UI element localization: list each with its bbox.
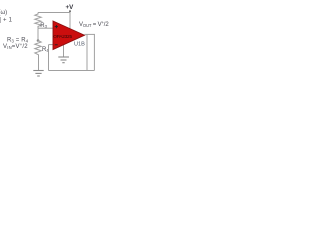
wire: non-inverting input (node to +IN) bbox=[38, 27, 53, 29]
svg-text:R3 = R4: R3 = R4 bbox=[7, 37, 29, 43]
resistor R3 bbox=[35, 13, 41, 29]
ground (op-amp supply) bbox=[58, 57, 69, 63]
wire: feedback bottom run bbox=[49, 70, 95, 72]
wire: divider node vertical bbox=[37, 28, 39, 40]
wire: top rail from R3 top to +V tap bbox=[38, 12, 70, 14]
svg-text:OPA2325: OPA2325 bbox=[53, 34, 72, 40]
+V supply arrow bbox=[69, 10, 71, 12]
svg-text:U1B: U1B bbox=[74, 42, 85, 48]
node junction dot bbox=[37, 39, 40, 42]
ground (under R4) bbox=[33, 71, 43, 77]
wire: feedback left vertical bbox=[48, 45, 50, 71]
wire: feedback drop at output node bbox=[86, 34, 88, 70]
svg-text:VIN=V+/2: VIN=V+/2 bbox=[3, 42, 28, 50]
wire: op-amp V+ supply pin bbox=[69, 13, 71, 30]
svg-text:| + 1: | + 1 bbox=[0, 17, 13, 23]
wire: output right vertical bbox=[93, 34, 95, 70]
op-amp - input marker bbox=[55, 44, 58, 46]
svg-text:+V: +V bbox=[66, 4, 75, 11]
wire: inverting input bbox=[49, 44, 54, 46]
background bbox=[0, 0, 120, 83]
svg-text:(ω): (ω) bbox=[0, 10, 7, 16]
op-amp + input marker bbox=[55, 25, 58, 28]
wire: output horizontal bbox=[85, 33, 95, 35]
op-amp U1B triangle bbox=[53, 21, 85, 50]
resistor R4 bbox=[35, 41, 41, 57]
wire: op-amp V- pin to ground bbox=[63, 45, 65, 57]
wire: R4 to ground bbox=[38, 57, 40, 71]
